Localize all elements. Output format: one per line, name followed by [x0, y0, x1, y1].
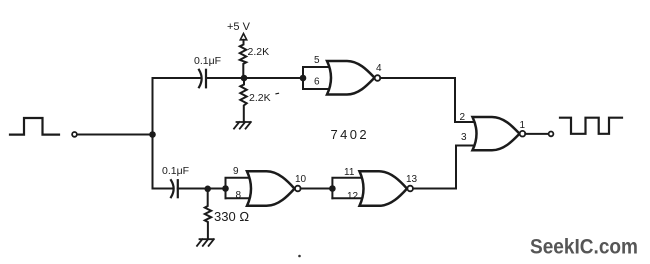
svg-text:+5 V: +5 V — [227, 21, 251, 33]
svg-text:1: 1 — [520, 120, 526, 131]
svg-text:13: 13 — [406, 174, 418, 185]
svg-text:0.1μF: 0.1μF — [162, 165, 189, 177]
node B divider junction — [241, 75, 248, 82]
resistor R3 330 ohm — [205, 189, 211, 239]
wire U1C output to node F — [301, 188, 333, 190]
wire node E to pin 9 — [226, 178, 251, 199]
wire node E to pin 8 — [226, 197, 251, 199]
U1C output bubble — [295, 186, 301, 192]
wire node D to node E — [208, 188, 226, 190]
svg-text:2.2K: 2.2K — [248, 46, 270, 58]
wire C1 to node B — [206, 77, 244, 79]
svg-text:7402: 7402 — [331, 127, 370, 142]
node F junction — [329, 185, 336, 192]
svg-text:10: 10 — [295, 174, 307, 185]
wire node C to pin 5 — [303, 67, 330, 89]
svg-text:SeekIC.com: SeekIC.com — [530, 235, 638, 259]
U1B output bubble — [407, 186, 413, 192]
svg-text:12: 12 — [347, 191, 359, 202]
wire input terminal to node A — [77, 134, 153, 136]
ground for R2 — [234, 122, 251, 129]
U1A output bubble — [375, 75, 381, 81]
svg-text:9: 9 — [233, 166, 239, 177]
node A input junction — [149, 131, 156, 138]
NOR gate U1B — [360, 171, 408, 206]
svg-text:0.1μF: 0.1μF — [194, 55, 221, 67]
wire U1B output to U1D pin 3 — [413, 146, 473, 189]
wire node B to node C — [244, 77, 303, 79]
wire node C to pin 6 — [303, 88, 330, 90]
node C gate input junction — [300, 75, 307, 82]
+5V arrow symbol — [240, 34, 246, 40]
wire U1D output to output terminal — [525, 133, 548, 135]
ground for R3 — [197, 239, 214, 246]
wire node A to bottom branch — [153, 135, 172, 189]
input terminal — [72, 132, 77, 137]
wire C2 to node D — [178, 188, 208, 190]
svg-text:2.2K: 2.2K — [249, 92, 271, 104]
U1D output bubble — [520, 131, 526, 137]
NOR gate U1D — [473, 117, 520, 150]
NOR gate U1C — [247, 171, 295, 206]
input waveform — [10, 118, 59, 135]
svg-text:4: 4 — [376, 63, 382, 74]
svg-text:8: 8 — [236, 190, 242, 201]
output terminal — [549, 132, 554, 137]
node D junction — [204, 186, 211, 193]
capacitor C1 0.1uF — [199, 70, 202, 88]
resistor R2 2.2K — [240, 78, 246, 122]
NOR gate U1A — [327, 61, 375, 95]
wire U1A output to U1D pin 2 — [380, 78, 473, 122]
wire node F to pin 12 — [332, 197, 362, 199]
output waveform — [560, 118, 622, 134]
node E gate input junction — [222, 185, 229, 192]
svg-text:5: 5 — [314, 55, 320, 66]
wire node A to top branch — [153, 78, 200, 135]
capacitor C2 0.1uF — [171, 180, 174, 197]
svg-text:330 Ω: 330 Ω — [214, 209, 249, 224]
svg-text:11: 11 — [344, 167, 355, 178]
svg-text:2: 2 — [460, 112, 466, 123]
resistor R1 2.2K — [240, 40, 246, 78]
wire node F to pin 11 — [332, 178, 362, 199]
svg-text:3: 3 — [461, 132, 467, 143]
svg-text:6: 6 — [314, 77, 320, 88]
